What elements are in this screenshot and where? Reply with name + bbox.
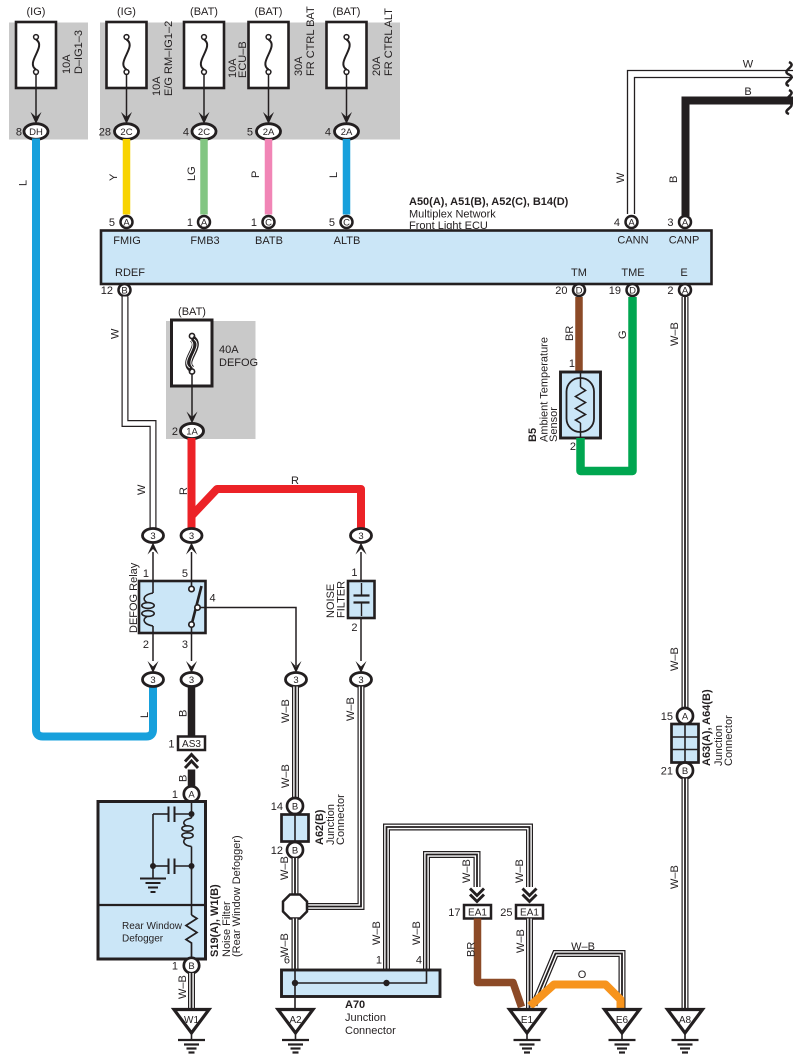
svg-text:B: B (178, 775, 190, 782)
svg-text:2C: 2C (120, 127, 132, 138)
svg-text:BATB: BATB (255, 235, 283, 247)
svg-text:A50(A), A51(B), A52(C), B14(D): A50(A), A51(B), A52(C), B14(D) (409, 196, 569, 208)
wire R red main (188, 438, 196, 528)
svg-text:FMIG: FMIG (113, 235, 141, 247)
svg-text:2C: 2C (198, 127, 210, 138)
wire W-B defogger to W1 (188, 973, 195, 1008)
defogger resistor (186, 866, 197, 958)
svg-text:C: C (343, 218, 350, 229)
svg-text:2: 2 (667, 285, 673, 297)
wire Y yellow (123, 139, 131, 215)
svg-text:(BAT): (BAT) (333, 6, 361, 18)
relay pin3 wire to connector (186, 633, 197, 673)
svg-text:(BAT): (BAT) (190, 6, 218, 18)
connector pin 4 2A (325, 124, 359, 140)
label W-B (669, 647, 681, 671)
svg-text:CANP: CANP (669, 235, 700, 247)
svg-text:W–B: W–B (345, 697, 357, 721)
svg-text:W–B: W–B (669, 647, 681, 671)
svg-text:B: B (682, 766, 688, 777)
label L (328, 172, 340, 178)
connector pin 21 B A63 (661, 763, 693, 779)
svg-text:2A: 2A (341, 127, 353, 138)
defogger coil (182, 818, 193, 870)
connector 3 below noise filter (351, 673, 372, 687)
svg-text:A63(A), A64(B): A63(A), A64(B) (701, 689, 713, 766)
svg-text:FR CTRL ALT: FR CTRL ALT (383, 8, 395, 76)
svg-text:W: W (743, 59, 754, 71)
junction connector A70 (282, 955, 441, 1038)
sensor B5 Ambient Temperature Sensor (527, 337, 601, 442)
svg-text:W–B: W–B (371, 921, 383, 945)
wire relay pin4 to connector (200, 608, 302, 674)
connector pin 1 B defogger (172, 958, 199, 973)
svg-text:3: 3 (150, 531, 155, 542)
svg-text:1: 1 (351, 567, 357, 579)
svg-text:W: W (110, 328, 122, 339)
label W-B (515, 929, 527, 953)
svg-text:DEFOG: DEFOG (219, 357, 258, 369)
svg-text:W–B: W–B (514, 859, 526, 883)
sensor B5 pin 2 label (570, 441, 576, 453)
break symbol B (786, 90, 791, 114)
svg-text:3: 3 (358, 675, 363, 686)
connector pin 12 B A62 (271, 842, 303, 858)
svg-text:EA1: EA1 (468, 908, 487, 919)
svg-text:8: 8 (16, 127, 22, 139)
relay pin2 wire to connector (148, 633, 159, 673)
svg-text:D: D (576, 286, 583, 297)
connector pin 4 2C (183, 124, 216, 140)
ECU pin 12 B RDEF (101, 284, 131, 297)
svg-text:10A: 10A (61, 54, 73, 74)
fuse 20A FR CTRL ALT (327, 6, 396, 88)
svg-text:(BAT): (BAT) (255, 6, 283, 18)
octagon splice junction (283, 895, 307, 919)
svg-text:Junction: Junction (345, 1012, 386, 1024)
svg-text:3: 3 (358, 531, 363, 542)
svg-text:L: L (18, 180, 30, 186)
wire fuse4 to 2A (263, 75, 274, 125)
svg-text:A: A (682, 286, 689, 297)
svg-text:Multiplex Network: Multiplex Network (409, 209, 496, 221)
label W (110, 328, 122, 339)
svg-text:W1: W1 (184, 1015, 199, 1026)
svg-text:17: 17 (448, 907, 460, 919)
label W-B (411, 921, 423, 945)
svg-text:30A: 30A (293, 56, 305, 76)
connector pin 1 A defogger (172, 786, 199, 801)
label LG (186, 166, 198, 181)
svg-text:5: 5 (329, 217, 335, 229)
svg-text:RDEF: RDEF (115, 267, 145, 279)
svg-text:W: W (615, 172, 627, 183)
svg-text:FR CTRL BAT: FR CTRL BAT (305, 6, 317, 76)
svg-text:3: 3 (182, 639, 188, 651)
svg-text:5: 5 (247, 127, 253, 139)
wire W-B relay pin4 connector to A62 (292, 687, 299, 799)
fuse 30A FR CTRL BAT (249, 6, 318, 88)
svg-text:DH: DH (29, 127, 43, 138)
ground E6 (605, 1010, 640, 1053)
wire W-B noise filter connector to octagon junction (308, 687, 361, 907)
connector pin 14 B A62 (271, 798, 303, 814)
svg-text:D: D (629, 286, 636, 297)
wire L blue ALTB (343, 139, 351, 215)
wire fuse DEFOG to 1A (187, 374, 198, 424)
svg-text:(IG): (IG) (117, 6, 136, 18)
ECU pin 3 A CANP (667, 216, 691, 229)
connector pin 8 DH (16, 124, 48, 140)
fuse 10A D-IG1-3 (16, 6, 85, 88)
svg-text:2: 2 (172, 426, 178, 438)
relay coil (142, 581, 154, 633)
label W-B (280, 764, 292, 788)
svg-text:1: 1 (569, 358, 575, 370)
svg-text:R: R (291, 475, 299, 487)
label B (744, 86, 751, 98)
svg-text:4: 4 (614, 217, 620, 229)
svg-text:Rear Window: Rear Window (122, 921, 183, 932)
wire B to CANP (686, 101, 794, 217)
svg-text:LG: LG (186, 166, 198, 181)
label B vertical (668, 176, 680, 183)
svg-text:4: 4 (416, 955, 422, 967)
wire fuse1 to DH (31, 75, 42, 125)
relay pin labels 2 3 (143, 639, 188, 651)
label W-B (279, 856, 291, 880)
wire BR to sensor (575, 297, 583, 372)
label L (18, 180, 30, 186)
svg-text:BR: BR (564, 326, 576, 341)
svg-text:1: 1 (172, 789, 178, 801)
svg-text:B: B (121, 286, 127, 297)
ECU pin 4 A CANN (614, 216, 638, 229)
wire A70 to A2 (294, 997, 296, 1011)
svg-text:21: 21 (661, 766, 673, 778)
connector 1 AS3 (168, 737, 205, 751)
svg-text:A: A (682, 218, 689, 229)
wire W-B from ECU pin E (682, 297, 689, 708)
wire B black relay pin3 to AS3 (188, 686, 196, 737)
wire B black AS3 to defogger (188, 770, 196, 787)
wire BR EA1 17 to E1 (478, 919, 522, 1008)
wire R red branch (192, 489, 362, 528)
label W-B (177, 975, 189, 999)
svg-text:W–B: W–B (571, 941, 595, 953)
svg-text:B: B (668, 176, 680, 183)
relay pin labels 1 5 (143, 568, 188, 580)
svg-text:W–B: W–B (177, 975, 189, 999)
svg-text:W–B: W–B (411, 921, 423, 945)
svg-text:A70: A70 (345, 999, 365, 1011)
wire W-B A70 pin4 to EA1 17 (427, 855, 478, 971)
svg-text:S19(A), W1(B): S19(A), W1(B) (209, 884, 221, 957)
label W-B (279, 933, 291, 957)
svg-text:A: A (123, 218, 130, 229)
wire W from RDEF pin 12B (125, 297, 153, 529)
svg-text:20: 20 (555, 285, 567, 297)
ECU pin 5 C ALTB (329, 216, 353, 229)
ground A2 (278, 1010, 313, 1053)
connector pin 28 2C (99, 124, 139, 140)
connector pin 5 2A (247, 124, 281, 140)
svg-text:G: G (617, 330, 629, 339)
relay pin 4 label (210, 593, 216, 605)
connector pin 2 1A (172, 423, 204, 438)
ECU pin 1 A FMB3 (187, 216, 210, 229)
junction connector A62(B) (282, 794, 348, 845)
label W vertical (615, 172, 627, 183)
svg-text:FILTER: FILTER (336, 581, 348, 618)
svg-text:1: 1 (172, 961, 178, 973)
ECU pin 1 C BATB (251, 216, 275, 229)
svg-text:(Rear Window Defogger): (Rear Window Defogger) (231, 835, 243, 957)
connector 3 below relay pin3 (181, 673, 202, 687)
svg-text:W: W (136, 484, 148, 495)
svg-text:1: 1 (168, 739, 174, 751)
label W-B (514, 859, 526, 883)
wire W to CANN (628, 71, 794, 215)
svg-text:AS3: AS3 (182, 739, 201, 750)
svg-text:15: 15 (661, 711, 673, 723)
ECU box Front Light ECU (101, 231, 712, 285)
connector 3 below relay pin4 (286, 673, 307, 687)
wire L blue from DH to relay pin2 connector (36, 139, 153, 737)
svg-text:28: 28 (99, 127, 111, 139)
svg-text:1: 1 (143, 568, 149, 580)
svg-text:B: B (292, 846, 298, 857)
svg-text:A: A (201, 218, 208, 229)
svg-text:P: P (250, 171, 262, 178)
capacitor C1 (153, 807, 192, 823)
svg-text:R: R (178, 487, 190, 495)
ground A8 (668, 1010, 703, 1053)
wire W-B A70 pin1 to EA1 25 (387, 827, 530, 970)
noise filter NOISE FILTER (325, 581, 375, 618)
svg-text:E/G RM–IG1–2: E/G RM–IG1–2 (163, 21, 175, 96)
svg-text:3: 3 (150, 675, 155, 686)
label W-B (571, 941, 595, 953)
label G (617, 330, 629, 339)
label R horizontal (291, 475, 299, 487)
svg-text:Connector: Connector (723, 715, 735, 766)
connector pin 15 A A63 (661, 708, 693, 724)
svg-text:TM: TM (571, 267, 587, 279)
relay switch (189, 581, 202, 633)
svg-text:Defogger: Defogger (122, 934, 164, 945)
wire LG green (200, 139, 208, 215)
svg-text:B: B (178, 710, 190, 717)
ECU title A50(A), A51(B), A52(C), B14(D) (409, 196, 569, 232)
svg-text:1: 1 (376, 955, 382, 967)
svg-text:3: 3 (667, 217, 673, 229)
label Y (108, 173, 120, 181)
ground internal defogger (140, 866, 166, 892)
wire fuse2 to 2C (121, 75, 132, 125)
svg-text:2: 2 (143, 639, 149, 651)
rear window defogger S19(A), W1(B) (98, 802, 243, 960)
svg-text:B: B (292, 802, 298, 813)
svg-text:O: O (578, 969, 587, 981)
junction connector A63(A), A64(B) (672, 689, 736, 766)
svg-text:W–B: W–B (279, 856, 291, 880)
svg-text:E: E (680, 267, 687, 279)
wire W-B EA1 25 to E1 (526, 919, 533, 1009)
svg-text:4: 4 (183, 127, 189, 139)
svg-text:E1: E1 (521, 1015, 534, 1026)
svg-text:3: 3 (189, 531, 194, 542)
svg-text:W–B: W–B (515, 929, 527, 953)
label W lower (136, 484, 148, 495)
svg-text:(BAT): (BAT) (178, 306, 206, 318)
svg-text:CANN: CANN (617, 235, 648, 247)
svg-text:40A: 40A (219, 344, 239, 356)
svg-text:Sensor: Sensor (548, 407, 560, 442)
wire W-B from A63 to A8 (682, 779, 689, 1009)
label W-B (669, 865, 681, 889)
label W-B (461, 859, 473, 883)
connector 3 above noise filter (351, 529, 372, 582)
label P (250, 171, 262, 178)
label W-B (280, 699, 292, 723)
label BR (564, 326, 576, 341)
svg-text:B5: B5 (527, 428, 539, 442)
svg-text:L: L (139, 712, 151, 718)
connector 17 EA1 (448, 905, 491, 919)
chevrons AS3 (185, 755, 198, 769)
ground E1 (510, 1010, 545, 1053)
wire W-B octagon to A70 pin6 (292, 919, 299, 971)
svg-text:A: A (682, 712, 689, 723)
svg-text:E6: E6 (616, 1015, 629, 1026)
svg-text:FMB3: FMB3 (190, 235, 219, 247)
svg-text:W–B: W–B (461, 859, 473, 883)
svg-text:12: 12 (101, 285, 113, 297)
svg-text:2: 2 (351, 622, 357, 634)
svg-text:ALTB: ALTB (334, 235, 361, 247)
svg-text:12: 12 (271, 845, 283, 857)
svg-text:B: B (744, 86, 751, 98)
wire G green sensor to TME (581, 297, 633, 471)
wire O orange E1 to E6 (530, 985, 621, 1009)
svg-text:5: 5 (109, 217, 115, 229)
wire fuse3 to 2C (199, 75, 210, 125)
svg-text:25: 25 (500, 907, 512, 919)
chevrons EA1 25 (523, 889, 537, 902)
label W-B (669, 322, 681, 346)
ECU pin 5 A FMIG (109, 216, 133, 229)
chevrons EA1 17 (470, 889, 484, 902)
label BR (466, 942, 478, 957)
svg-text:6: 6 (284, 955, 290, 967)
label W-B (345, 697, 357, 721)
connector 3 above relay pin5 (181, 529, 202, 582)
svg-text:3: 3 (189, 675, 194, 686)
svg-text:W–B: W–B (669, 865, 681, 889)
svg-text:5: 5 (182, 568, 188, 580)
svg-text:BR: BR (466, 942, 478, 957)
ECU pin 2 A E (667, 284, 691, 297)
label R vertical (178, 487, 190, 495)
svg-text:4: 4 (210, 593, 216, 605)
svg-text:3: 3 (293, 675, 298, 686)
connector 3 below relay pin2 (143, 673, 164, 687)
wire W-B E1 to E6 (534, 954, 622, 1009)
svg-text:1: 1 (251, 217, 257, 229)
fuse block background right (100, 23, 400, 140)
svg-text:D–IG1–3: D–IG1–3 (73, 30, 85, 74)
svg-text:10A: 10A (151, 76, 163, 96)
fuse 10A ECU-B (184, 6, 249, 88)
svg-text:EA1: EA1 (520, 908, 539, 919)
label B (178, 775, 190, 782)
connector 25 EA1 (500, 905, 543, 919)
ECU pin 19 D TME (609, 284, 639, 297)
svg-text:(IG): (IG) (27, 6, 46, 18)
svg-text:DEFOG Relay: DEFOG Relay (128, 562, 140, 633)
svg-text:W–B: W–B (669, 322, 681, 346)
relay DEFOG Relay (128, 562, 206, 633)
wire W-B A62 to octagon (292, 858, 299, 894)
label W-B (371, 921, 383, 945)
ground W1 (174, 1010, 209, 1053)
svg-text:19: 19 (609, 285, 621, 297)
label B (178, 710, 190, 717)
svg-text:A: A (628, 218, 635, 229)
svg-text:Connector: Connector (345, 1025, 396, 1037)
svg-text:4: 4 (325, 127, 331, 139)
wire fuse5 to 2A (341, 75, 352, 125)
fuse block background DEFOG (166, 321, 256, 439)
svg-text:W–B: W–B (279, 933, 291, 957)
svg-text:1A: 1A (186, 427, 198, 438)
svg-text:A8: A8 (679, 1015, 692, 1026)
svg-text:B: B (188, 961, 194, 972)
svg-text:2: 2 (570, 441, 576, 453)
connector 3 above relay pin1 (143, 529, 164, 582)
svg-text:C: C (265, 218, 272, 229)
svg-text:W–B: W–B (280, 699, 292, 723)
svg-text:2A: 2A (263, 127, 275, 138)
break symbol W (786, 62, 791, 86)
sensor B5 pin 1 label (569, 358, 575, 370)
label W (743, 59, 754, 71)
svg-text:A2: A2 (289, 1015, 302, 1026)
wire noise filter pin2 to connector (356, 618, 367, 673)
svg-text:TME: TME (621, 267, 644, 279)
label O (578, 969, 587, 981)
svg-text:A: A (188, 790, 195, 801)
fuse block background left (9, 23, 88, 140)
svg-text:ECU–B: ECU–B (237, 41, 249, 78)
fuse 10A E/G RM-IG1-2 (107, 6, 176, 96)
svg-text:L: L (328, 172, 340, 178)
ECU pin 20 D TM (555, 284, 585, 297)
svg-text:20A: 20A (371, 56, 383, 76)
capacitor C2 (150, 814, 195, 874)
svg-text:W–B: W–B (280, 764, 292, 788)
defogger internal wire from pin A (189, 802, 195, 819)
noise filter pin 1 label (351, 567, 357, 579)
svg-text:1: 1 (187, 217, 193, 229)
wire P pink (265, 139, 273, 215)
label L lower (139, 712, 151, 718)
fuse 40A DEFOG (172, 306, 259, 386)
svg-text:Y: Y (108, 173, 120, 181)
svg-text:14: 14 (271, 801, 283, 813)
svg-text:Connector: Connector (335, 794, 347, 845)
